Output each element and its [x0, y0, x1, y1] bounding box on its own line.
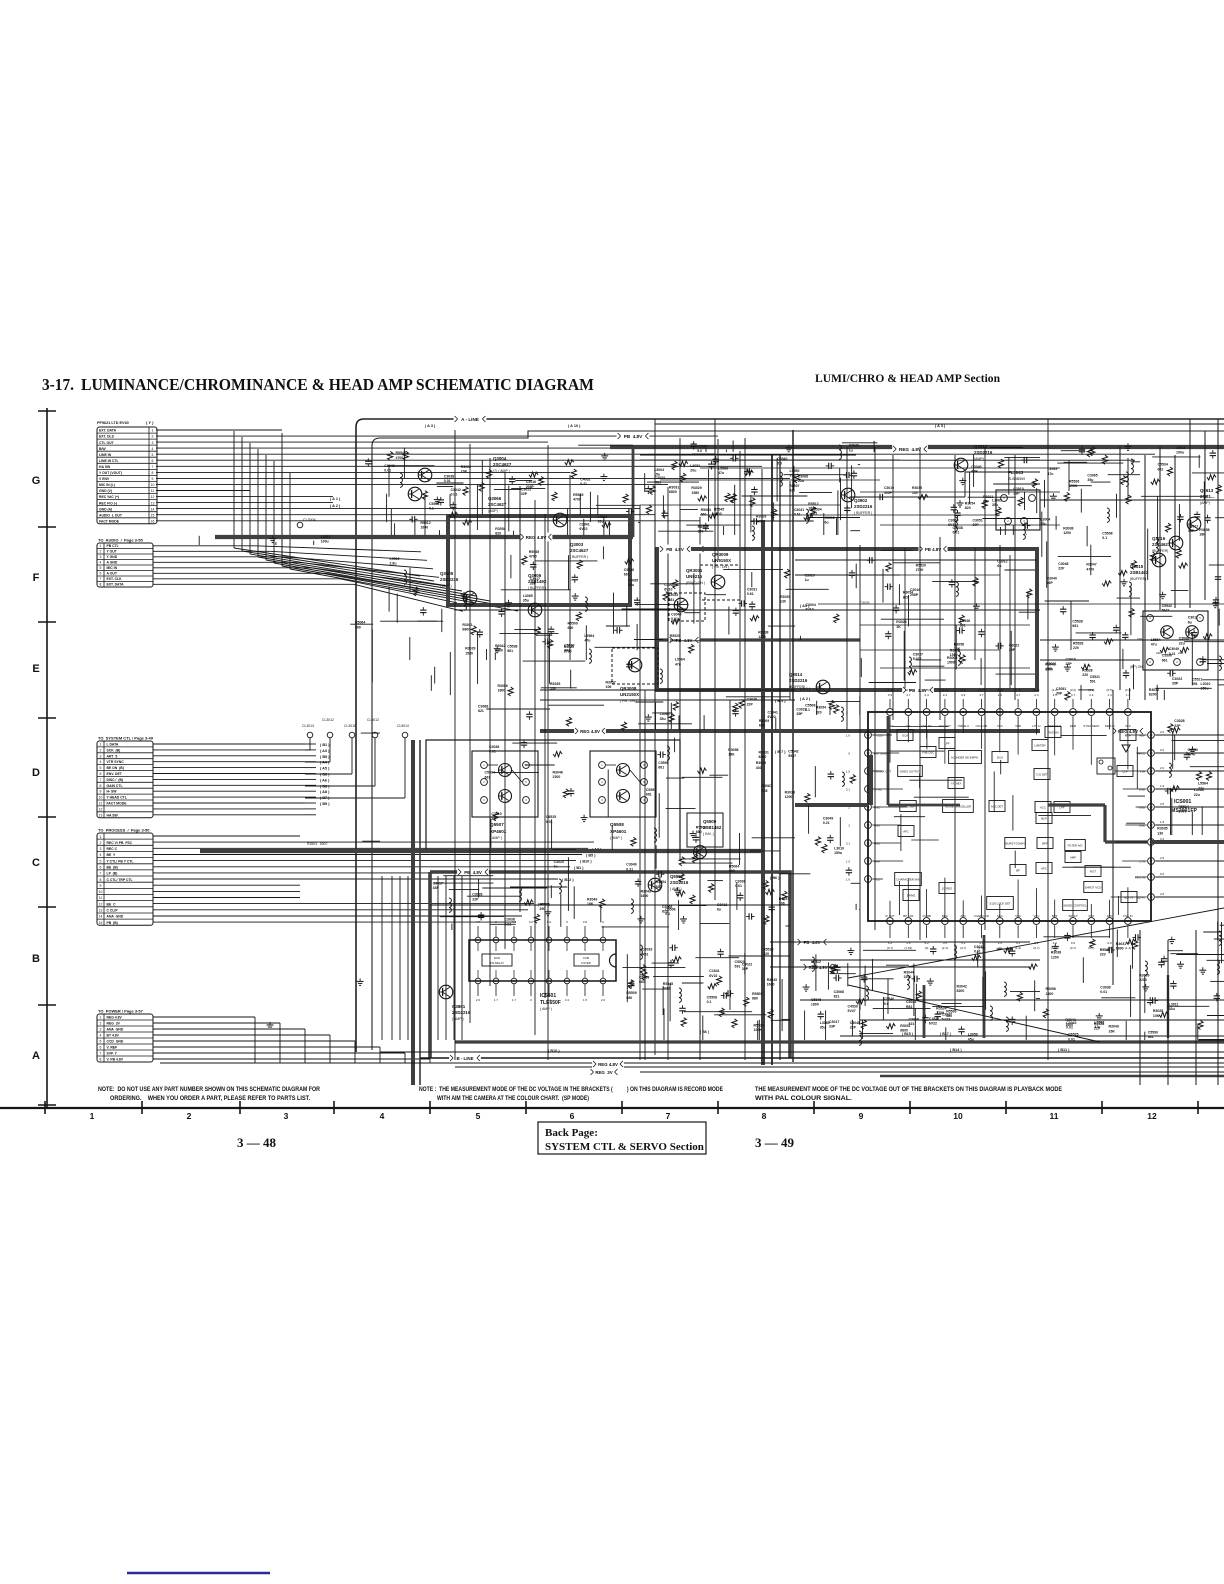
- svg-text:35u: 35u: [820, 1026, 826, 1030]
- svg-text:GAIN CTL: GAIN CTL: [107, 784, 123, 788]
- svg-text:REG 3V: REG 3V: [107, 1022, 121, 1026]
- svg-text:DISC / (B): DISC / (B): [107, 778, 124, 782]
- svg-text:19: 19: [1150, 823, 1153, 827]
- svg-text:8200: 8200: [1149, 693, 1157, 697]
- svg-text:0.61: 0.61: [747, 592, 754, 596]
- svg-text:PB 4.8V: PB 4.8V: [464, 870, 482, 875]
- svg-text:821: 821: [909, 1022, 915, 1026]
- svg-text:R5509: R5509: [626, 991, 636, 995]
- svg-text:(3.2): (3.2): [1070, 688, 1076, 692]
- svg-text:(BUFFER): (BUFFER): [789, 685, 805, 689]
- svg-text:R5509: R5509: [696, 826, 706, 830]
- svg-text:C3038: C3038: [489, 745, 499, 749]
- svg-text:2709: 2709: [1179, 810, 1187, 814]
- svg-text:C3049: C3049: [626, 863, 636, 867]
- svg-text:R5512: R5512: [808, 502, 818, 506]
- svg-text:HA SW: HA SW: [99, 465, 111, 469]
- svg-text:0.21: 0.21: [823, 821, 830, 825]
- svg-text:TO POWER / Page 3-57: TO POWER / Page 3-57: [98, 1009, 144, 1014]
- svg-text:ROT: ROT: [1090, 869, 1096, 873]
- svg-text:( B14 ): ( B14 ): [950, 1048, 962, 1052]
- svg-text:( A6 ): ( A6 ): [320, 778, 330, 782]
- svg-text:3: 3: [100, 555, 102, 559]
- svg-text:0.1: 0.1: [707, 1000, 712, 1004]
- svg-text:ELB4B559: ELB4B559: [1008, 477, 1025, 481]
- svg-text:0.9: 0.9: [888, 693, 893, 697]
- svg-text:( BUFFER ): ( BUFFER ): [570, 555, 588, 559]
- svg-text:C3017: C3017: [433, 881, 443, 885]
- svg-text:Y OUT (VOUT): Y OUT (VOUT): [99, 471, 122, 475]
- svg-text:0: 0: [848, 752, 850, 756]
- svg-text:R3029: R3029: [465, 647, 475, 651]
- svg-text:6u: 6u: [825, 521, 829, 525]
- svg-text:C3065: C3065: [1087, 473, 1097, 477]
- svg-text:H- SW: H- SW: [107, 790, 118, 794]
- svg-text:CHR: CHR: [874, 860, 880, 864]
- svg-text:R3058: R3058: [1199, 528, 1209, 532]
- svg-text:47u: 47u: [675, 662, 681, 666]
- svg-text:5947: 5947: [788, 754, 796, 758]
- svg-text:D.D DET: D.D DET: [1036, 772, 1047, 776]
- svg-text:IC5501: IC5501: [540, 993, 556, 999]
- svg-text:SHROT VCO: SHROT VCO: [1085, 885, 1102, 889]
- svg-text:C3016: C3016: [910, 588, 920, 592]
- svg-text:8: 8: [100, 784, 102, 788]
- svg-text:100K: 100K: [1069, 484, 1078, 488]
- svg-text:C3010: C3010: [884, 486, 894, 490]
- svg-text:9: 9: [859, 1111, 864, 1121]
- svg-text:R5546: R5546: [539, 903, 549, 907]
- svg-text:2SC4627: 2SC4627: [1152, 542, 1171, 547]
- svg-text:REG 4.8V: REG 4.8V: [526, 535, 548, 540]
- svg-text:100u: 100u: [1176, 451, 1184, 455]
- svg-text:R3029: R3029: [691, 486, 701, 490]
- svg-text:10K: 10K: [756, 519, 763, 523]
- svg-text:1: 1: [152, 429, 154, 433]
- svg-text:C3022: C3022: [1009, 644, 1019, 648]
- svg-text:( A 2 ): ( A 2 ): [800, 697, 811, 701]
- svg-text:EQ/VV: EQ/VV: [1136, 896, 1145, 900]
- svg-text:15: 15: [151, 513, 155, 517]
- svg-text:REC YAC (+): REC YAC (+): [99, 495, 119, 499]
- svg-text:C3004: C3004: [948, 518, 958, 522]
- svg-text:47u: 47u: [1047, 472, 1053, 476]
- svg-text:C3017: C3017: [530, 577, 540, 581]
- svg-text:AFC: AFC: [903, 829, 909, 833]
- svg-text:R5509: R5509: [568, 622, 578, 626]
- svg-text:C3033: C3033: [668, 593, 678, 597]
- svg-text:L5564: L5564: [584, 634, 594, 638]
- svg-text:661: 661: [658, 765, 664, 769]
- svg-text:45u: 45u: [968, 1037, 974, 1041]
- svg-text:SCK (B): SCK (B): [107, 748, 121, 752]
- svg-text:820: 820: [656, 885, 662, 889]
- svg-text:30P: 30P: [1056, 692, 1063, 696]
- svg-text:R3038: R3038: [1063, 527, 1073, 531]
- svg-text:C3048: C3048: [1058, 562, 1068, 566]
- svg-text:1800: 1800: [498, 688, 506, 692]
- svg-text:3: 3: [152, 441, 154, 445]
- svg-text:35P: 35P: [742, 967, 749, 971]
- svg-text:10: 10: [99, 890, 103, 894]
- svg-text:C3020: C3020: [554, 860, 564, 864]
- svg-text:( B1 ): ( B1 ): [320, 743, 330, 747]
- svg-text:DCA: DCA: [997, 755, 1003, 759]
- svg-text:2: 2: [483, 780, 485, 784]
- svg-text:2: 2: [601, 780, 603, 784]
- svg-text:1.9: 1.9: [1160, 784, 1165, 788]
- svg-text:0.21: 0.21: [626, 867, 633, 871]
- svg-text:661: 661: [1162, 658, 1168, 662]
- svg-text:L5564: L5564: [675, 658, 685, 662]
- svg-text:2SD2216: 2SD2216: [440, 577, 459, 582]
- svg-text:C3048: C3048: [747, 698, 757, 702]
- svg-text:35u: 35u: [1087, 478, 1093, 482]
- svg-text:Y OUT: Y OUT: [107, 550, 118, 554]
- svg-text:WITH PAL COLOUR SIGNAL.: WITH PAL COLOUR SIGNAL.: [755, 1095, 852, 1102]
- svg-text:C4530: C4530: [1188, 748, 1198, 752]
- svg-text:1.4: 1.4: [1108, 693, 1113, 697]
- svg-text:L3065: L3065: [660, 712, 670, 716]
- svg-text:C6525: C6525: [1068, 1033, 1078, 1037]
- svg-text:0.01: 0.01: [735, 884, 742, 888]
- svg-text:7: 7: [152, 465, 154, 469]
- svg-text:( Y ): ( Y ): [146, 420, 154, 425]
- svg-text:MODE CONTROL: MODE CONTROL: [1064, 903, 1087, 907]
- svg-text:5: 5: [100, 766, 102, 770]
- svg-text:R3035: R3035: [1157, 827, 1167, 831]
- svg-text:1500: 1500: [947, 661, 955, 665]
- svg-text:22: 22: [1150, 769, 1153, 773]
- svg-text:C3051: C3051: [1056, 687, 1066, 691]
- svg-text:680: 680: [626, 996, 632, 1000]
- svg-text:6800: 6800: [462, 627, 470, 631]
- svg-text:8200: 8200: [1045, 667, 1053, 671]
- svg-text:A - LINE: A - LINE: [461, 417, 479, 422]
- svg-text:0.01: 0.01: [444, 479, 451, 483]
- svg-text:UN9150X: UN9150X: [712, 558, 731, 563]
- svg-text:1.7: 1.7: [494, 998, 499, 1002]
- svg-text:Q5507: Q5507: [490, 822, 504, 827]
- svg-text:( AMP ): ( AMP ): [490, 836, 502, 840]
- svg-text:2700: 2700: [670, 639, 678, 643]
- svg-text:R3042: R3042: [495, 644, 505, 648]
- svg-text:R3028: R3028: [756, 515, 766, 519]
- svg-text:5.022: 5.022: [913, 657, 922, 661]
- svg-text:R3057: R3057: [606, 680, 616, 684]
- svg-text:REC V/ PB FSC: REC V/ PB FSC: [107, 841, 133, 845]
- svg-text:GCA: GCA: [902, 733, 908, 737]
- svg-text:R3054: R3054: [965, 501, 975, 505]
- svg-text:R5509: R5509: [759, 719, 769, 723]
- svg-text:R5507: R5507: [789, 484, 799, 488]
- svg-text:R3046: R3046: [553, 770, 563, 774]
- svg-text:150u: 150u: [834, 851, 842, 855]
- svg-text:( B10 ): ( B10 ): [580, 860, 592, 864]
- svg-text:R5524: R5524: [936, 1006, 946, 1010]
- svg-text:591: 591: [1192, 682, 1198, 686]
- svg-text:5: 5: [525, 780, 527, 784]
- svg-text:R3054: R3054: [495, 527, 505, 531]
- svg-text:Y HEAD CTL: Y HEAD CTL: [107, 796, 127, 800]
- svg-text:C3038: C3038: [953, 526, 963, 530]
- svg-text:35u: 35u: [523, 599, 529, 603]
- svg-text:0.21: 0.21: [671, 617, 678, 621]
- svg-text:661: 661: [1072, 624, 1078, 628]
- svg-text:( A5 ): ( A5 ): [320, 767, 330, 771]
- svg-text:680: 680: [946, 1014, 952, 1018]
- svg-text:661: 661: [1158, 467, 1164, 471]
- svg-text:THE MEASUREMENT MODE OF THE DC: THE MEASUREMENT MODE OF THE DC VOLTAGE O…: [755, 1086, 1062, 1093]
- svg-text:4: 4: [1149, 616, 1151, 620]
- svg-text:820: 820: [903, 595, 909, 599]
- svg-text:680: 680: [983, 500, 989, 504]
- svg-text:1580: 1580: [691, 491, 699, 495]
- svg-text:R5545: R5545: [663, 982, 673, 986]
- svg-text:C3048: C3048: [850, 1021, 860, 1025]
- svg-text:L3004: L3004: [1040, 518, 1050, 522]
- svg-text:C3038: C3038: [735, 880, 745, 884]
- svg-text:R3058: R3058: [728, 748, 738, 752]
- svg-text:C3031: C3031: [747, 588, 757, 592]
- svg-text:LP (B): LP (B): [107, 872, 118, 876]
- svg-text:4: 4: [525, 798, 527, 802]
- svg-text:16K: 16K: [587, 902, 594, 906]
- svg-text:7: 7: [666, 1111, 671, 1121]
- svg-text:2SC4627: 2SC4627: [488, 502, 507, 507]
- svg-text:R81: R81: [642, 952, 648, 956]
- svg-text:5947: 5947: [1162, 609, 1170, 613]
- svg-text:( INV. ): ( INV. ): [703, 832, 714, 836]
- svg-text:( A 10 ): ( A 10 ): [568, 424, 581, 428]
- svg-text:130: 130: [780, 600, 786, 604]
- svg-text:V.IM: V.IM: [1140, 770, 1146, 774]
- svg-text:2.0: 2.0: [476, 998, 481, 1002]
- svg-text:LUMI/CHRO & HEAD AMP Section: LUMI/CHRO & HEAD AMP Section: [815, 373, 1001, 385]
- svg-text:ACC DET: ACC DET: [991, 804, 1004, 808]
- svg-text:15: 15: [1150, 895, 1153, 899]
- svg-text:TLE650F: TLE650F: [540, 1000, 561, 1006]
- svg-text:6V22: 6V22: [579, 527, 587, 531]
- svg-text:16: 16: [151, 519, 155, 523]
- svg-text:GND: GND: [1139, 806, 1145, 810]
- svg-text:C3010: C3010: [1013, 487, 1023, 491]
- svg-text:R3031: R3031: [759, 750, 769, 754]
- svg-text:1800: 1800: [811, 1003, 819, 1007]
- svg-text:C3065: C3065: [628, 579, 638, 583]
- svg-text:( B6 ): ( B6 ): [770, 876, 780, 880]
- svg-text:MIC IN (L): MIC IN (L): [99, 483, 115, 487]
- svg-text:13: 13: [151, 501, 155, 505]
- svg-text:C5534: C5534: [485, 771, 495, 775]
- svg-text:16: 16: [1150, 875, 1153, 879]
- svg-text:R3024: R3024: [896, 620, 906, 624]
- svg-text:REF: REF: [1139, 734, 1145, 738]
- svg-text:WITH AIM THE CAMERA AT THE COL: WITH AIM THE CAMERA AT THE COLOUR CHART.…: [437, 1095, 589, 1102]
- svg-text:16K: 16K: [1109, 1029, 1116, 1033]
- svg-text:0.01: 0.01: [451, 493, 458, 497]
- svg-text:R5526: R5526: [754, 1024, 764, 1028]
- svg-text:R3028: R3028: [1153, 1009, 1163, 1013]
- svg-text:0.0: 0.0: [1160, 872, 1165, 876]
- svg-text:BE Y: BE Y: [107, 853, 117, 857]
- svg-text:821: 821: [834, 995, 840, 999]
- svg-text:C5542: C5542: [1162, 604, 1172, 608]
- svg-text:( B15 ): ( B15 ): [902, 1032, 914, 1036]
- svg-text:12: 12: [99, 807, 103, 811]
- svg-text:C1841: C1841: [929, 1017, 939, 1021]
- svg-text:C5508: C5508: [429, 502, 439, 506]
- svg-text:( A3 ): ( A3 ): [320, 749, 330, 753]
- svg-text:(0.7): (0.7): [887, 946, 893, 950]
- svg-text:B: B: [32, 953, 40, 965]
- svg-text:R3035: R3035: [550, 682, 560, 686]
- svg-text:EXT. DATA: EXT. DATA: [107, 583, 125, 587]
- svg-text:2.8u: 2.8u: [811, 965, 818, 969]
- svg-text:2700: 2700: [916, 568, 924, 572]
- svg-text:8: 8: [762, 1111, 767, 1121]
- svg-text:A GND: A GND: [107, 561, 118, 565]
- svg-text:BT 4.8V: BT 4.8V: [107, 1034, 120, 1038]
- svg-text:Back Page:: Back Page:: [545, 1127, 598, 1139]
- svg-text:1.4: 1.4: [998, 693, 1003, 697]
- svg-text:(3.2): (3.2): [978, 688, 984, 692]
- svg-text:0.01: 0.01: [953, 531, 960, 535]
- svg-text:VIDEO OUTPUT: VIDEO OUTPUT: [900, 769, 921, 773]
- svg-text:L6511: L6511: [1176, 446, 1186, 450]
- svg-text:C5508: C5508: [1102, 531, 1112, 535]
- svg-text:C3038: C3038: [974, 945, 984, 949]
- svg-text:L5586: L5586: [718, 466, 728, 470]
- svg-text:C1841: C1841: [579, 523, 589, 527]
- svg-text:37p: 37p: [790, 474, 796, 478]
- svg-text:661: 661: [624, 572, 630, 576]
- svg-text:B/W: B/W: [99, 447, 106, 451]
- svg-text:20: 20: [1150, 805, 1153, 809]
- svg-text:3 — 48: 3 — 48: [237, 1135, 277, 1150]
- svg-text:6: 6: [570, 1111, 575, 1121]
- svg-text:R3038: R3038: [785, 791, 795, 795]
- svg-text:REG 4.8V: REG 4.8V: [598, 1062, 618, 1067]
- svg-text:661: 661: [564, 648, 570, 652]
- svg-text:5.0: 5.0: [777, 461, 782, 465]
- svg-text:C: C: [32, 857, 40, 869]
- svg-text:C5534: C5534: [811, 508, 821, 512]
- svg-text:661: 661: [960, 624, 966, 628]
- svg-text:820: 820: [965, 506, 971, 510]
- svg-text:C5538: C5538: [624, 568, 634, 572]
- svg-text:4.7: 4.7: [1016, 693, 1021, 697]
- svg-text:23P: 23P: [1013, 492, 1020, 496]
- svg-text:C5534: C5534: [1158, 463, 1168, 467]
- svg-text:33P: 33P: [530, 582, 537, 586]
- svg-text:COM: COM: [583, 956, 590, 960]
- svg-text:35u: 35u: [660, 717, 666, 721]
- svg-text:R5064: R5064: [701, 508, 711, 512]
- svg-text:Q8613: Q8613: [1200, 488, 1214, 493]
- svg-text:R5064: R5064: [729, 864, 739, 868]
- svg-text:1200: 1200: [758, 635, 766, 639]
- svg-text:4: 4: [100, 1034, 102, 1038]
- svg-text:208P: 208P: [526, 485, 535, 489]
- svg-text:ICS001: ICS001: [1174, 799, 1191, 805]
- svg-text:PB C IN: PB C IN: [1135, 876, 1145, 880]
- svg-text:4: 4: [100, 760, 102, 764]
- svg-text:6V22: 6V22: [929, 1022, 937, 1026]
- svg-text:4700: 4700: [529, 555, 537, 559]
- svg-text:FILTER A/D: FILTER A/D: [1068, 843, 1083, 847]
- svg-text:R5545: R5545: [573, 493, 583, 497]
- svg-text:(0.7): (0.7): [1070, 946, 1076, 950]
- svg-text:( A4 ): ( A4 ): [320, 761, 330, 765]
- svg-text:L5512: L5512: [390, 557, 400, 561]
- svg-text:MIC IN: MIC IN: [107, 566, 118, 570]
- svg-text:C5508: C5508: [707, 996, 717, 1000]
- svg-text:PB 4.8V: PB 4.8V: [676, 638, 693, 643]
- svg-text:REG 4.8V: REG 4.8V: [107, 1016, 123, 1020]
- svg-text:4700: 4700: [396, 456, 404, 460]
- svg-text:C5542: C5542: [788, 749, 798, 753]
- svg-text:3: 3: [100, 754, 102, 758]
- svg-text:C3004: C3004: [664, 583, 674, 587]
- svg-text:17: 17: [1150, 859, 1153, 863]
- svg-text:SLO: SLO: [997, 914, 1003, 918]
- svg-text:C6525: C6525: [546, 815, 556, 819]
- svg-text:SYNC: SYNC: [874, 788, 882, 792]
- svg-text:EXT. DATA: EXT. DATA: [99, 429, 117, 433]
- svg-text:2SD2216: 2SD2216: [974, 450, 993, 455]
- svg-text:220: 220: [1100, 953, 1106, 957]
- svg-text:(2.8): (2.8): [905, 688, 911, 692]
- svg-text:5V47: 5V47: [848, 1009, 856, 1013]
- svg-text:R5545: R5545: [714, 507, 724, 511]
- svg-text:661: 661: [646, 793, 652, 797]
- svg-text:5.0: 5.0: [697, 449, 702, 453]
- svg-text:2SD2216: 2SD2216: [854, 504, 873, 509]
- svg-text:R3035: R3035: [780, 595, 790, 599]
- svg-text:1: 1: [100, 544, 102, 548]
- svg-text:V. PB 4.8V: V. PB 4.8V: [107, 1058, 124, 1062]
- svg-text:22u: 22u: [1194, 793, 1200, 797]
- svg-text:0.41: 0.41: [580, 482, 587, 486]
- svg-text:12: 12: [151, 495, 155, 499]
- svg-text:G: G: [32, 475, 41, 487]
- svg-text:CL3004: CL3004: [303, 518, 316, 522]
- svg-text:( B16 ): ( B16 ): [548, 1049, 560, 1053]
- svg-text:R3031: R3031: [669, 485, 679, 489]
- svg-text:L5512: L5512: [811, 960, 821, 964]
- svg-text:GND: GND: [874, 806, 880, 810]
- svg-text:L5564: L5564: [1198, 782, 1208, 786]
- svg-text:R3042: R3042: [1045, 663, 1055, 667]
- svg-text:(AMP): (AMP): [974, 457, 984, 461]
- svg-text:R5528: R5528: [1100, 948, 1110, 952]
- svg-text:1u: 1u: [849, 448, 853, 452]
- svg-text:22P: 22P: [747, 702, 754, 706]
- svg-text:C3017: C3017: [829, 1020, 839, 1024]
- svg-text:0.9: 0.9: [1071, 941, 1076, 945]
- svg-text:C3042: C3042: [384, 464, 394, 468]
- svg-text:C3010: C3010: [1066, 657, 1076, 661]
- svg-text:33P: 33P: [433, 886, 440, 890]
- svg-text:1600: 1600: [767, 983, 775, 987]
- svg-text:13: 13: [867, 859, 870, 863]
- svg-text:7: 7: [100, 577, 102, 581]
- svg-text:0.1: 0.1: [429, 507, 434, 511]
- svg-text:1.5: 1.5: [583, 998, 588, 1002]
- svg-text:Y CTL/ PB Y CTL: Y CTL/ PB Y CTL: [107, 859, 134, 863]
- svg-text:R3056: R3056: [1046, 987, 1056, 991]
